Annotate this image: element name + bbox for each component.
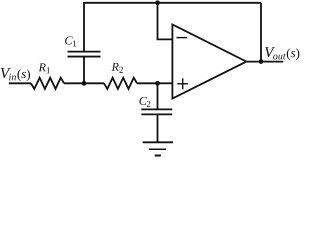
op-amp inverting input marker (minus): [176, 37, 187, 39]
resistor R2: [104, 78, 137, 89]
node output junction: [259, 59, 264, 64]
node B junction (R2/C2/non-inverting input): [155, 81, 160, 86]
node top-rail junction: [155, 0, 160, 5]
label R1: [39, 63, 50, 73]
wire node B down to C2: [157, 83, 159, 109]
wire feedback from output up to top rail: [260, 3, 262, 62]
capacitor C1: [68, 52, 101, 57]
op-amp U1 triangle: [172, 25, 246, 99]
ground: [143, 142, 173, 155]
capacitor C2: [141, 109, 172, 114]
output label Vout(s): [265, 47, 299, 60]
wire op-amp output: [246, 61, 283, 63]
resistor R1: [31, 78, 64, 89]
wire input to R1: [9, 82, 31, 84]
node A junction (R1/R2/C1): [82, 81, 87, 86]
wire C2 down to ground: [157, 114, 159, 142]
wire C1 up and top feedback rail to output branch: [84, 3, 261, 52]
label R2: [112, 63, 123, 73]
label C2: [139, 97, 150, 107]
wire R1 to node A: [64, 82, 84, 84]
label C1: [65, 36, 76, 46]
wire node B to op-amp + input: [158, 82, 173, 84]
op-amp non-inverting input marker (plus): [177, 78, 188, 89]
wire node A up to C1: [83, 57, 85, 84]
input source label Vin(s): [1, 68, 30, 81]
wire R2 to node B: [137, 82, 158, 84]
wire node A to R2: [84, 82, 104, 84]
wire top rail down to op-amp inverting input: [158, 3, 173, 40]
